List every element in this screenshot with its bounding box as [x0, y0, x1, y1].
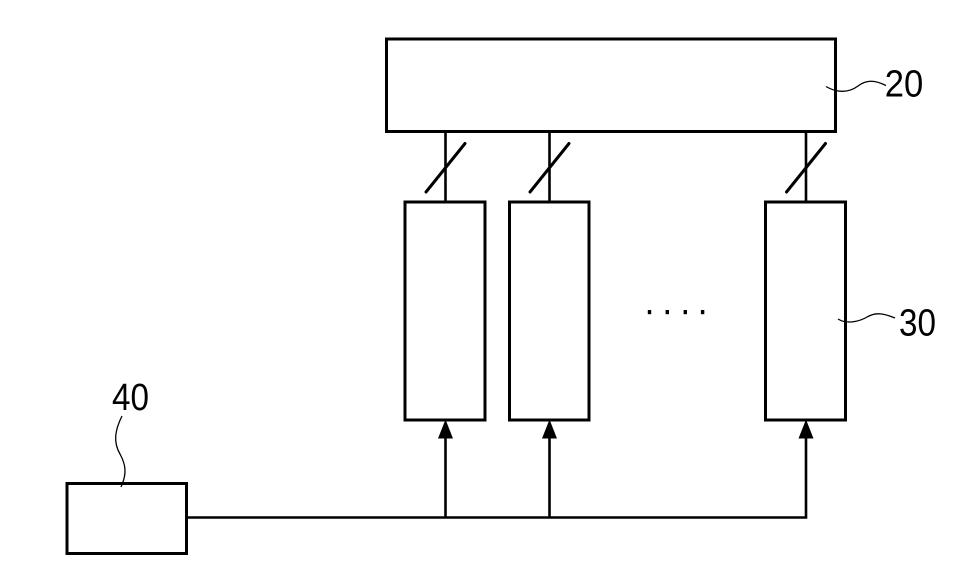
leader squiggle to label 20	[826, 81, 886, 91]
block 20 (wide top rectangle)	[387, 39, 836, 132]
wire: horizontal bus from block 40 with corner up to column 3	[188, 437, 806, 518]
wire: riser to column 1 arrow	[444, 437, 447, 518]
slash mark on connector 1	[426, 144, 465, 193]
slash mark on connector 2	[530, 144, 569, 193]
slash mark on connector 3	[787, 144, 826, 193]
wire: connector from block 20 to column 1	[444, 132, 447, 203]
arrowhead into column 1	[438, 420, 453, 439]
block 30 column 2 (tall rectangle)	[510, 202, 590, 420]
block 30 column 3 (tall rectangle)	[766, 202, 846, 420]
leader squiggle from label 40 to block 40	[116, 416, 125, 487]
wire: riser to column 2 arrow	[548, 437, 551, 518]
arrowhead into column 3	[799, 420, 814, 439]
ellipsis dots between columns	[648, 310, 705, 314]
wire: connector from block 20 to column 2	[548, 132, 551, 203]
wire: connector from block 20 to column 3	[805, 132, 808, 203]
arrowhead into column 2	[542, 420, 557, 439]
svg-text:40: 40	[112, 377, 149, 419]
leader squiggle to label 30	[838, 314, 895, 322]
block 30 column 1 (tall rectangle)	[405, 202, 485, 420]
svg-text:20: 20	[885, 64, 924, 106]
block 40 (small rectangle lower left)	[67, 484, 187, 554]
svg-text:30: 30	[899, 303, 936, 345]
